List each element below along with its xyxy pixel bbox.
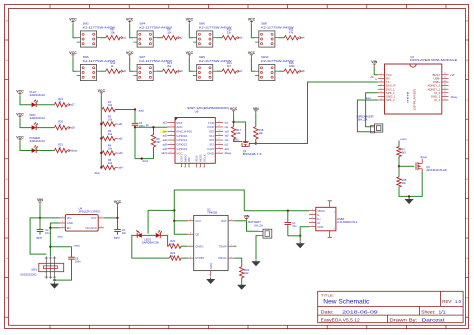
ground at Q2 block	[405, 197, 414, 204]
resistor R13 2k2	[157, 61, 177, 74]
resistor R6 4k7	[151, 126, 161, 147]
VCC flag for resistor ladder	[98, 89, 106, 95]
switch SW9 K2-1177SW-A4SW	[193, 55, 232, 80]
svg-text:TITLE:: TITLE:	[321, 293, 335, 297]
svg-text:VIN: VIN	[67, 216, 72, 220]
capacitor C1 10u	[285, 211, 298, 236]
net flag a6	[176, 69, 183, 73]
svg-text:TP4056: TP4056	[207, 211, 218, 215]
capacitor C2 10u	[37, 218, 50, 235]
net label ad3 at ESP pin 6	[163, 143, 168, 146]
svg-text:8: 8	[380, 98, 381, 100]
svg-text:IO_1: IO_1	[434, 98, 441, 102]
svg-text:9: 9	[181, 167, 182, 169]
svg-text:4: 4	[171, 134, 172, 136]
svg-text:10k: 10k	[167, 30, 172, 34]
wire VCC to SW4	[130, 24, 134, 38]
wire VIN to R18	[255, 113, 257, 126]
svg-text:2: 2	[380, 77, 381, 79]
svg-text:ad1: ad1	[163, 135, 168, 138]
svg-text:3k3: 3k3	[402, 151, 407, 155]
net label +vout above R7	[400, 137, 407, 141]
svg-text:ad1: ad1	[118, 123, 123, 126]
net label a15 at ESP pin 1	[163, 122, 168, 125]
wire VCC to LED2	[20, 96, 32, 105]
svg-text:+vout: +vout	[400, 137, 407, 141]
VIN flag at DFPlayer	[371, 60, 377, 66]
wire VCC to SW9	[189, 57, 193, 71]
svg-text:11: 11	[218, 143, 220, 145]
svg-text:10k: 10k	[108, 103, 113, 107]
svg-text:3AR4UD12: 3AR4UD12	[30, 139, 46, 143]
resistor R2 10k	[100, 114, 115, 126]
svg-text:1: 1	[380, 73, 381, 75]
wire C1 to ground node	[288, 235, 302, 237]
net label den at ESP pin 3	[160, 129, 168, 133]
svg-text:10u: 10u	[122, 231, 127, 235]
net label dbusy at DFPlayer GND_2	[451, 96, 458, 99]
svg-text:dbusy: dbusy	[451, 96, 458, 99]
resistor R10 22k	[216, 27, 236, 40]
svg-text:SCLK: SCLK	[202, 154, 206, 162]
svg-text:5: 5	[100, 216, 101, 218]
svg-text:100k: 100k	[289, 64, 295, 68]
switch SW10 K2-1177SW-A4SW	[255, 55, 294, 80]
net flag a2	[176, 36, 183, 40]
net label ad4	[115, 167, 123, 170]
svg-text:GND: GND	[209, 263, 213, 269]
svg-text:1: 1	[62, 216, 63, 218]
wire U1 PROG to R16	[234, 258, 242, 267]
wire R22 to U1 CHRG	[181, 245, 188, 247]
wire SW1 pin3 to ground	[54, 279, 56, 282]
VCC flag for LED PLAY	[16, 90, 24, 96]
wire R16 to ground	[241, 278, 243, 283]
ESP-12F module U6	[167, 106, 229, 169]
VCC flag for SW7	[126, 51, 134, 57]
svg-text:SW9: SW9	[199, 55, 205, 59]
svg-text:9: 9	[219, 151, 220, 153]
svg-text:SW4: SW4	[139, 22, 145, 26]
resistor R16 1k2	[239, 267, 249, 278]
speaker connector BH_2A	[356, 115, 382, 133]
wire DFPlayer SPK_2 to speaker	[357, 100, 377, 132]
svg-text:2: 2	[231, 256, 232, 258]
USB connector USB1 U-D-MSDD-W-1	[309, 201, 358, 238]
capacitor C3 10u	[114, 218, 126, 235]
svg-text:13: 13	[218, 134, 220, 136]
svg-text:SW8: SW8	[261, 22, 267, 26]
svg-text:a15: a15	[225, 148, 230, 151]
svg-text:dgnd: dgnd	[114, 235, 120, 239]
svg-text:10k: 10k	[111, 30, 116, 34]
svg-text:dtxd: dtxd	[234, 139, 239, 142]
net label a15 at ESP right pin	[225, 148, 230, 151]
net flag a1	[119, 36, 126, 40]
resistor R17 10k	[231, 127, 241, 139]
svg-text:BAT: BAT	[221, 219, 227, 223]
wire Q2 source to ground rail	[399, 171, 422, 197]
svg-text:10k: 10k	[259, 131, 264, 135]
VCC flag for SW5	[69, 51, 77, 57]
wire rail to LED1 common	[148, 210, 174, 233]
svg-text:SW3: SW3	[83, 22, 89, 26]
svg-text:3: 3	[231, 219, 232, 221]
svg-text:a18: a18	[70, 126, 75, 130]
net label +vout	[73, 244, 80, 248]
svg-text:GND: GND	[317, 225, 323, 229]
svg-text:8: 8	[190, 232, 191, 234]
svg-text:10u: 10u	[292, 224, 297, 228]
VCC flag for SW3	[69, 18, 77, 24]
svg-text:EN: EN	[67, 226, 71, 230]
svg-text:aout: aout	[139, 108, 144, 112]
svg-text:10k: 10k	[108, 161, 113, 165]
ground at SW1	[50, 282, 59, 289]
svg-text:CHRG: CHRG	[195, 244, 203, 248]
svg-text:ad4: ad4	[118, 167, 123, 170]
svg-text:6: 6	[380, 91, 381, 93]
net label dtxd at Q1 gate	[234, 139, 239, 142]
svg-text:VCC: VCC	[69, 51, 77, 55]
wire U4 OUT to VCC	[104, 206, 119, 219]
svg-text:12: 12	[444, 88, 446, 90]
LED POWER 3AR4UD12	[30, 136, 46, 153]
svg-text:+vout: +vout	[73, 244, 80, 248]
svg-text:15: 15	[444, 77, 446, 79]
svg-text:drxd: drxd	[143, 159, 149, 163]
VCC flag at regulator output	[114, 200, 122, 206]
wire R23 to U1 STDBY	[181, 257, 188, 259]
svg-text:SW5: SW5	[83, 55, 89, 59]
wire U4 GND EN down to SW1	[49, 223, 60, 256]
switch SW4 K2-1177SW-A4SW	[133, 22, 172, 47]
ground at R16	[237, 283, 246, 290]
svg-text:2018-06-09: 2018-06-09	[342, 309, 378, 314]
wire C6 to ground rail	[53, 260, 71, 282]
svg-text:13: 13	[444, 84, 446, 86]
net flag a18	[67, 126, 75, 130]
svg-text:4: 4	[312, 221, 313, 223]
svg-text:10: 10	[218, 147, 220, 149]
net label rxd at ESP right pin	[225, 126, 229, 129]
LED1 bicolor SAR09HC38	[136, 230, 162, 244]
svg-text:VCC: VCC	[16, 90, 24, 94]
svg-text:SW10: SW10	[261, 55, 269, 59]
wire junction to C6	[50, 246, 71, 248]
svg-text:sd2: sd2	[225, 135, 230, 138]
svg-text:dtxd: dtxd	[94, 171, 100, 175]
svg-text:Sheet:: Sheet:	[421, 309, 435, 314]
net label ad3	[115, 152, 123, 155]
ground at USB	[296, 242, 305, 249]
wire C5 to ESP ADC	[134, 125, 168, 158]
net label txd at ESP right pin	[225, 122, 229, 125]
svg-text:12: 12	[218, 138, 220, 140]
svg-text:BH_2A: BH_2A	[358, 118, 367, 122]
wire DFPlayer SPK_1 to speaker	[366, 93, 378, 127]
svg-text:4k7: 4k7	[227, 64, 232, 68]
net label drxd at DFPlayer RX	[375, 78, 378, 81]
svg-text:VIN: VIN	[244, 215, 250, 219]
svg-text:SPK_2: SPK_2	[386, 98, 395, 102]
VIN flag at regulator	[37, 198, 43, 204]
svg-text:VCC: VCC	[186, 18, 194, 22]
wire R17 to Q1 gate	[234, 139, 242, 142]
svg-text:OUT: OUT	[91, 216, 97, 220]
svg-text:SW6: SW6	[199, 22, 205, 26]
net label drxd	[143, 159, 149, 163]
svg-text:VCC: VCC	[248, 18, 256, 22]
svg-text:2: 2	[312, 213, 313, 215]
svg-text:ad3: ad3	[118, 152, 123, 155]
wire VCC to LED3	[20, 119, 32, 128]
svg-text:7: 7	[380, 95, 381, 97]
svg-text:+VT: +VT	[450, 74, 455, 77]
wire VIN to SW1	[30, 218, 46, 254]
svg-text:1: 1	[171, 121, 172, 123]
title block	[318, 291, 463, 322]
switch SW1 SS5S215262	[20, 256, 63, 278]
svg-text:ad2: ad2	[163, 139, 168, 142]
net label ad1 at ESP pin 4	[163, 135, 168, 138]
svg-text:VIN: VIN	[37, 198, 43, 202]
VCC flag for SW10	[248, 51, 256, 57]
svg-text:3: 3	[171, 130, 172, 132]
net flag a17	[67, 103, 75, 107]
svg-text:11: 11	[444, 91, 446, 93]
net label sd3 at ESP right pin	[225, 130, 230, 133]
wire VIN to DFPlayer VCC	[374, 66, 378, 74]
wire U1 BAT to battery	[234, 220, 246, 222]
svg-text:5: 5	[312, 225, 313, 227]
svg-text:IO9: IO9	[187, 157, 191, 162]
resistor R11 47k	[279, 27, 299, 40]
svg-text:2: 2	[62, 221, 63, 223]
net label dbusy at ESP right pin	[225, 152, 232, 155]
svg-text:3AR4UD12: 3AR4UD12	[30, 116, 46, 120]
net label a17 at DFPlayer BUSY	[450, 74, 455, 77]
svg-text:3AR4UD12: 3AR4UD12	[30, 93, 46, 97]
svg-text:den: den	[163, 130, 168, 133]
svg-text:SW7: SW7	[139, 55, 145, 59]
net label aout	[139, 108, 144, 112]
svg-text:XPD112R-3.3TRG1: XPD112R-3.3TRG1	[79, 210, 101, 214]
svg-text:txd: txd	[225, 122, 229, 125]
svg-text:12: 12	[196, 167, 198, 169]
svg-text:1/1: 1/1	[439, 309, 447, 314]
net flag a5	[119, 69, 126, 73]
resistor R18 10k	[254, 127, 264, 139]
svg-text:SW1: SW1	[31, 267, 37, 271]
net flag a7	[235, 69, 242, 73]
LED WIFI 3AR4UD12	[30, 113, 46, 130]
svg-text:14: 14	[218, 130, 220, 132]
svg-text:sd3: sd3	[225, 130, 230, 133]
svg-text:dvcc: dvcc	[58, 234, 64, 238]
svg-text:6: 6	[209, 274, 210, 276]
svg-text:14: 14	[444, 80, 446, 82]
net label +5v at DFPlayer VCC	[370, 76, 375, 79]
svg-text:VCC: VCC	[16, 135, 24, 139]
svg-text:10k: 10k	[108, 117, 113, 121]
svg-text:10: 10	[444, 95, 446, 97]
switch SW5 K2-1177SW-A4SW	[77, 55, 116, 80]
LED PLAY 3AR4UD12	[30, 90, 46, 107]
wire rail to U1 VCC	[174, 220, 187, 222]
svg-text:VCC: VCC	[186, 51, 194, 55]
wire VCC to SW8	[251, 24, 255, 38]
svg-text:2k2: 2k2	[167, 64, 172, 68]
svg-text:NC(ADJ): NC(ADJ)	[86, 226, 97, 230]
net flag a8	[298, 69, 305, 73]
svg-text:rxd: rxd	[225, 126, 229, 129]
svg-text:10k: 10k	[236, 131, 241, 135]
svg-text:SSSS215262: SSSS215262	[20, 273, 37, 277]
net label ad2	[115, 138, 123, 141]
svg-text:a3v3: a3v3	[161, 152, 167, 155]
net label a0	[146, 125, 149, 127]
svg-text:16: 16	[444, 73, 446, 75]
wire TEMP stub	[234, 245, 236, 247]
ground at U1 GND	[206, 277, 215, 284]
svg-text:GND: GND	[67, 221, 73, 225]
net label dgnd below C3	[114, 232, 120, 239]
svg-text:Date:: Date:	[321, 309, 334, 314]
wire LED1 center	[142, 234, 156, 236]
svg-text:10k: 10k	[108, 132, 113, 136]
svg-text:3: 3	[380, 80, 381, 82]
svg-text:5: 5	[380, 88, 381, 90]
svg-text:Drawn By:: Drawn By:	[389, 318, 417, 323]
resistor R4 10k	[100, 143, 115, 155]
wire ladder vertical rail	[100, 95, 102, 167]
svg-text:CE: CE	[195, 232, 199, 236]
net label ad4 at ESP pin 7	[163, 148, 168, 151]
capacitor C5 100n	[132, 121, 145, 128]
svg-text:G: G	[6, 258, 8, 260]
svg-text:1: 1	[312, 209, 313, 211]
battery connector XH-2A	[248, 220, 271, 238]
net label dout at speaker wire	[366, 97, 371, 100]
svg-text:10k: 10k	[402, 181, 407, 185]
net flag a3	[235, 36, 242, 40]
VCC flag for LED POWER	[16, 135, 24, 141]
wire VIN node	[39, 204, 60, 219]
resistor R23 1k	[169, 251, 181, 260]
resistor R7 3k3	[397, 147, 407, 157]
VCC flag at level shifter	[230, 107, 238, 113]
wire R1 to node aout	[115, 108, 136, 110]
svg-text:DFPLAYER MINI-MODULE: DFPLAYER MINI-MODULE	[410, 58, 457, 62]
ground at battery	[251, 260, 260, 267]
svg-text:7: 7	[190, 244, 191, 246]
svg-text:1.0: 1.0	[455, 299, 462, 304]
svg-text:VCC: VCC	[16, 112, 24, 116]
svg-text:New Schematic: New Schematic	[323, 300, 369, 306]
wire to R7	[398, 141, 400, 147]
svg-text:dbusy: dbusy	[225, 152, 232, 155]
svg-text:3: 3	[312, 217, 313, 219]
svg-text:SAR09HC38: SAR09HC38	[142, 240, 160, 244]
wire VCC to R17 and Q1	[232, 113, 245, 138]
VCC flag for SW9	[186, 51, 194, 57]
net label a3v3 at ESP pin 8	[161, 152, 167, 155]
switch SW7 K2-1177SW-A4SW	[133, 55, 172, 80]
svg-text:ad2: ad2	[118, 138, 123, 141]
wire node down to C5	[134, 110, 136, 123]
svg-text:5: 5	[171, 138, 172, 140]
svg-text:U-D-MSDD-W-1: U-D-MSDD-W-1	[337, 220, 358, 224]
svg-text:G: G	[466, 258, 468, 260]
net label dmute at Q2 drain	[420, 156, 427, 159]
wire VCC to SW7	[130, 57, 134, 71]
svg-text:U6: U6	[195, 109, 199, 113]
net label io2 at ESP right pin	[225, 143, 229, 146]
svg-text:STDBY: STDBY	[195, 256, 204, 260]
svg-text:VCC: VCC	[126, 51, 134, 55]
svg-text:6: 6	[334, 211, 335, 213]
charger U1 TP4056	[188, 207, 234, 276]
wire LED1 right to R22	[160, 235, 168, 246]
svg-text:3: 3	[62, 226, 63, 228]
svg-text:10: 10	[184, 167, 186, 169]
svg-text:22k: 22k	[227, 30, 232, 34]
wire battery pin2 to ground	[256, 236, 259, 260]
svg-text:2: 2	[171, 125, 172, 127]
svg-text:47k: 47k	[289, 30, 294, 34]
svg-text:a15: a15	[163, 122, 168, 125]
resistor R25 10k	[397, 177, 407, 187]
transistor Q2 AP2310GN-HF	[416, 159, 448, 173]
resistor R20 1k	[36, 120, 67, 130]
svg-text:VCC: VCC	[69, 18, 77, 22]
svg-text:11: 11	[188, 167, 190, 169]
DFPlayer mini module U3	[378, 55, 457, 114]
svg-text:6: 6	[334, 229, 335, 231]
svg-text:DFPLAYER: DFPLAYER	[413, 89, 417, 110]
svg-text:15: 15	[218, 125, 220, 127]
svg-text:VCC: VCC	[230, 107, 238, 111]
svg-text:4: 4	[100, 226, 101, 228]
resistor R14 4k7	[216, 61, 236, 74]
svg-text:dout: dout	[366, 97, 371, 100]
switch SW8 K2-1177SW-A4SW	[255, 22, 294, 47]
svg-text:dmute: dmute	[420, 156, 427, 159]
resistor R15 100k	[279, 61, 299, 74]
svg-text:4k7: 4k7	[156, 140, 161, 144]
VIN flag at battery	[244, 215, 250, 221]
wire VCC to SW3	[73, 24, 77, 38]
svg-text:dgnd: dgnd	[36, 235, 42, 239]
resistor R19 1k	[36, 97, 67, 107]
regulator U4 XC6210B-3.3TRG1	[60, 206, 104, 231]
wire VCC to SW10	[251, 57, 255, 71]
svg-text:BSS138-7-F: BSS138-7-F	[243, 152, 263, 156]
capacitor C6 100n	[68, 247, 81, 264]
resistor R3 10k	[100, 129, 115, 141]
svg-text:4: 4	[190, 219, 191, 221]
svg-text:ad4: ad4	[163, 148, 168, 151]
net label ad1	[115, 123, 123, 126]
svg-text:VCC: VCC	[195, 219, 201, 223]
resistor R1 10k	[102, 100, 115, 112]
net label dtxd at ladder bottom	[94, 171, 100, 175]
resistor R9 10k	[157, 27, 177, 40]
wire VCC to SW5	[73, 57, 77, 71]
svg-text:ad3: ad3	[163, 143, 168, 146]
wire VCC to SW6	[189, 24, 193, 38]
